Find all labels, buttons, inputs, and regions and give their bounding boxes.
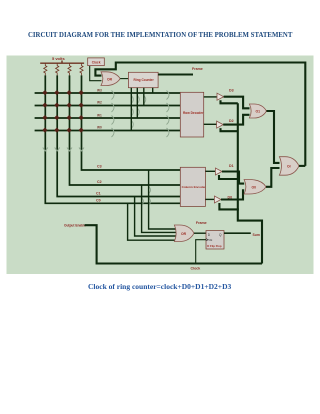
wire enable bus vertical	[238, 103, 262, 263]
title text	[28, 32, 292, 39]
column encoder box U4	[180, 167, 206, 206]
svg-text:Frame: Frame	[196, 221, 207, 225]
wire Q output to Sum	[224, 232, 251, 234]
svg-text:W1: W1	[97, 114, 102, 118]
node wire hop arcs column B	[167, 91, 170, 138]
wire buffer D0 output to OR O0	[221, 190, 244, 199]
svg-text:Ring Counter: Ring Counter	[134, 78, 155, 82]
svg-text:Column Encoder: Column Encoder	[182, 185, 207, 189]
op-amp OR gate U1 (clock OR)	[101, 72, 120, 86]
svg-text:Frame: Frame	[192, 67, 203, 71]
svg-text:D2: D2	[229, 119, 234, 123]
node 5V supply rail	[40, 61, 84, 64]
wire ring counter output Q0 to row W0	[130, 88, 132, 131]
svg-text:OR: OR	[181, 232, 187, 236]
wire enable loop under D3	[221, 100, 238, 103]
buffer D0	[214, 195, 232, 203]
resistor R3	[68, 63, 71, 75]
wire row line W1	[35, 117, 181, 119]
resistor R2	[56, 63, 59, 75]
wire enable loop under D1	[219, 175, 238, 179]
wire OR O0 output up to final OR	[266, 168, 280, 187]
caption text	[88, 282, 231, 291]
wire enable loop under D0	[219, 203, 238, 209]
wire ring counter output Q1 to row W1	[136, 88, 138, 118]
svg-text:O1: O1	[256, 110, 261, 114]
svg-text:Output Enable: Output Enable	[64, 223, 86, 227]
wire C0 branch to frame OR	[128, 203, 177, 240]
node column direction arrows	[43, 148, 84, 152]
svg-text:C2: C2	[97, 180, 102, 184]
wire encoder output to buffer D1	[205, 170, 215, 172]
svg-text:O0: O0	[252, 186, 257, 190]
svg-text:OR: OR	[107, 77, 113, 81]
svg-text:Or: Or	[287, 165, 292, 169]
ring counter box U2	[128, 72, 158, 87]
wire ring counter output Q3 to row W3	[152, 88, 154, 93]
op-amp final OR gate O2	[279, 157, 299, 176]
diode matrix 16 diodes	[42, 90, 83, 133]
wire frame OR output to D flip flop	[194, 232, 206, 234]
wire C1 branch to frame OR	[135, 197, 176, 237]
clock box CLK1	[88, 58, 105, 66]
resistor R4	[80, 63, 83, 75]
wire encoder output to buffer D0	[205, 198, 214, 200]
svg-text:Clock: Clock	[191, 267, 201, 271]
wire column line 1 to C0	[45, 75, 180, 203]
buffer D1	[215, 164, 233, 175]
wire decoder output to buffer D2	[204, 123, 217, 125]
D flip flop U6	[206, 231, 224, 249]
wire buffer D1 output to OR O0	[222, 172, 244, 184]
svg-text:C1: C1	[96, 192, 101, 196]
svg-text:D Flip Flop: D Flip Flop	[207, 244, 222, 248]
wire row line W2	[35, 105, 181, 107]
svg-text:5 volts: 5 volts	[52, 56, 65, 61]
wire row line W3	[35, 92, 181, 94]
wire clock to flip flop clk	[196, 240, 206, 264]
svg-text:C3: C3	[97, 165, 102, 169]
svg-text:W3: W3	[97, 89, 102, 93]
wire Frame output stub	[158, 73, 193, 75]
wire row line W0	[35, 130, 181, 132]
svg-text:D1: D1	[229, 164, 234, 168]
wire clock box to OR gate U1	[90, 66, 102, 81]
wire column line 4 to C3	[82, 75, 181, 170]
wire C3 branch to frame OR	[149, 170, 177, 229]
svg-text:W2: W2	[97, 101, 102, 105]
node wire hop arcs on C branch verticals	[142, 187, 151, 206]
wire column line 3 to C2	[70, 75, 181, 185]
wire C2 branch to frame OR	[142, 185, 176, 232]
op-amp frame OR gate U5	[174, 225, 194, 242]
wire final OR output to top loop	[299, 165, 305, 167]
wire buffer D2 output to OR O1	[223, 115, 249, 125]
svg-text:D3: D3	[229, 89, 234, 93]
green schematic panel background	[7, 56, 314, 275]
wire feedback top loop	[95, 63, 305, 166]
op-amp OR gate O1	[249, 104, 266, 118]
svg-text:Sum: Sum	[253, 233, 260, 237]
wire output enable to bottom bus	[85, 225, 263, 263]
svg-text:Row Decoder: Row Decoder	[183, 111, 204, 115]
node wire hop arcs on ring counter verticals	[131, 96, 146, 129]
resistor R1	[44, 63, 47, 75]
wire column line 2 to C1	[57, 75, 180, 196]
wire ring counter output Q2 to row W2	[143, 88, 145, 106]
op-amp OR gate O0	[244, 180, 266, 195]
wire OR U1 output to ring counter	[120, 78, 128, 80]
svg-text:C0: C0	[96, 199, 101, 203]
wire buffer D3 output to OR O1	[224, 97, 250, 109]
buffer D2	[217, 119, 234, 128]
svg-text:W0: W0	[97, 126, 102, 130]
buffer D3	[217, 89, 234, 101]
svg-text:Clock: Clock	[92, 60, 101, 64]
wire OR O1 output down to final OR	[267, 111, 280, 163]
wire enable loop under D2	[221, 128, 238, 131]
wire decoder output to buffer D3	[204, 96, 217, 98]
row decoder box U3	[180, 92, 204, 137]
node wire hop arcs column A	[112, 91, 115, 138]
